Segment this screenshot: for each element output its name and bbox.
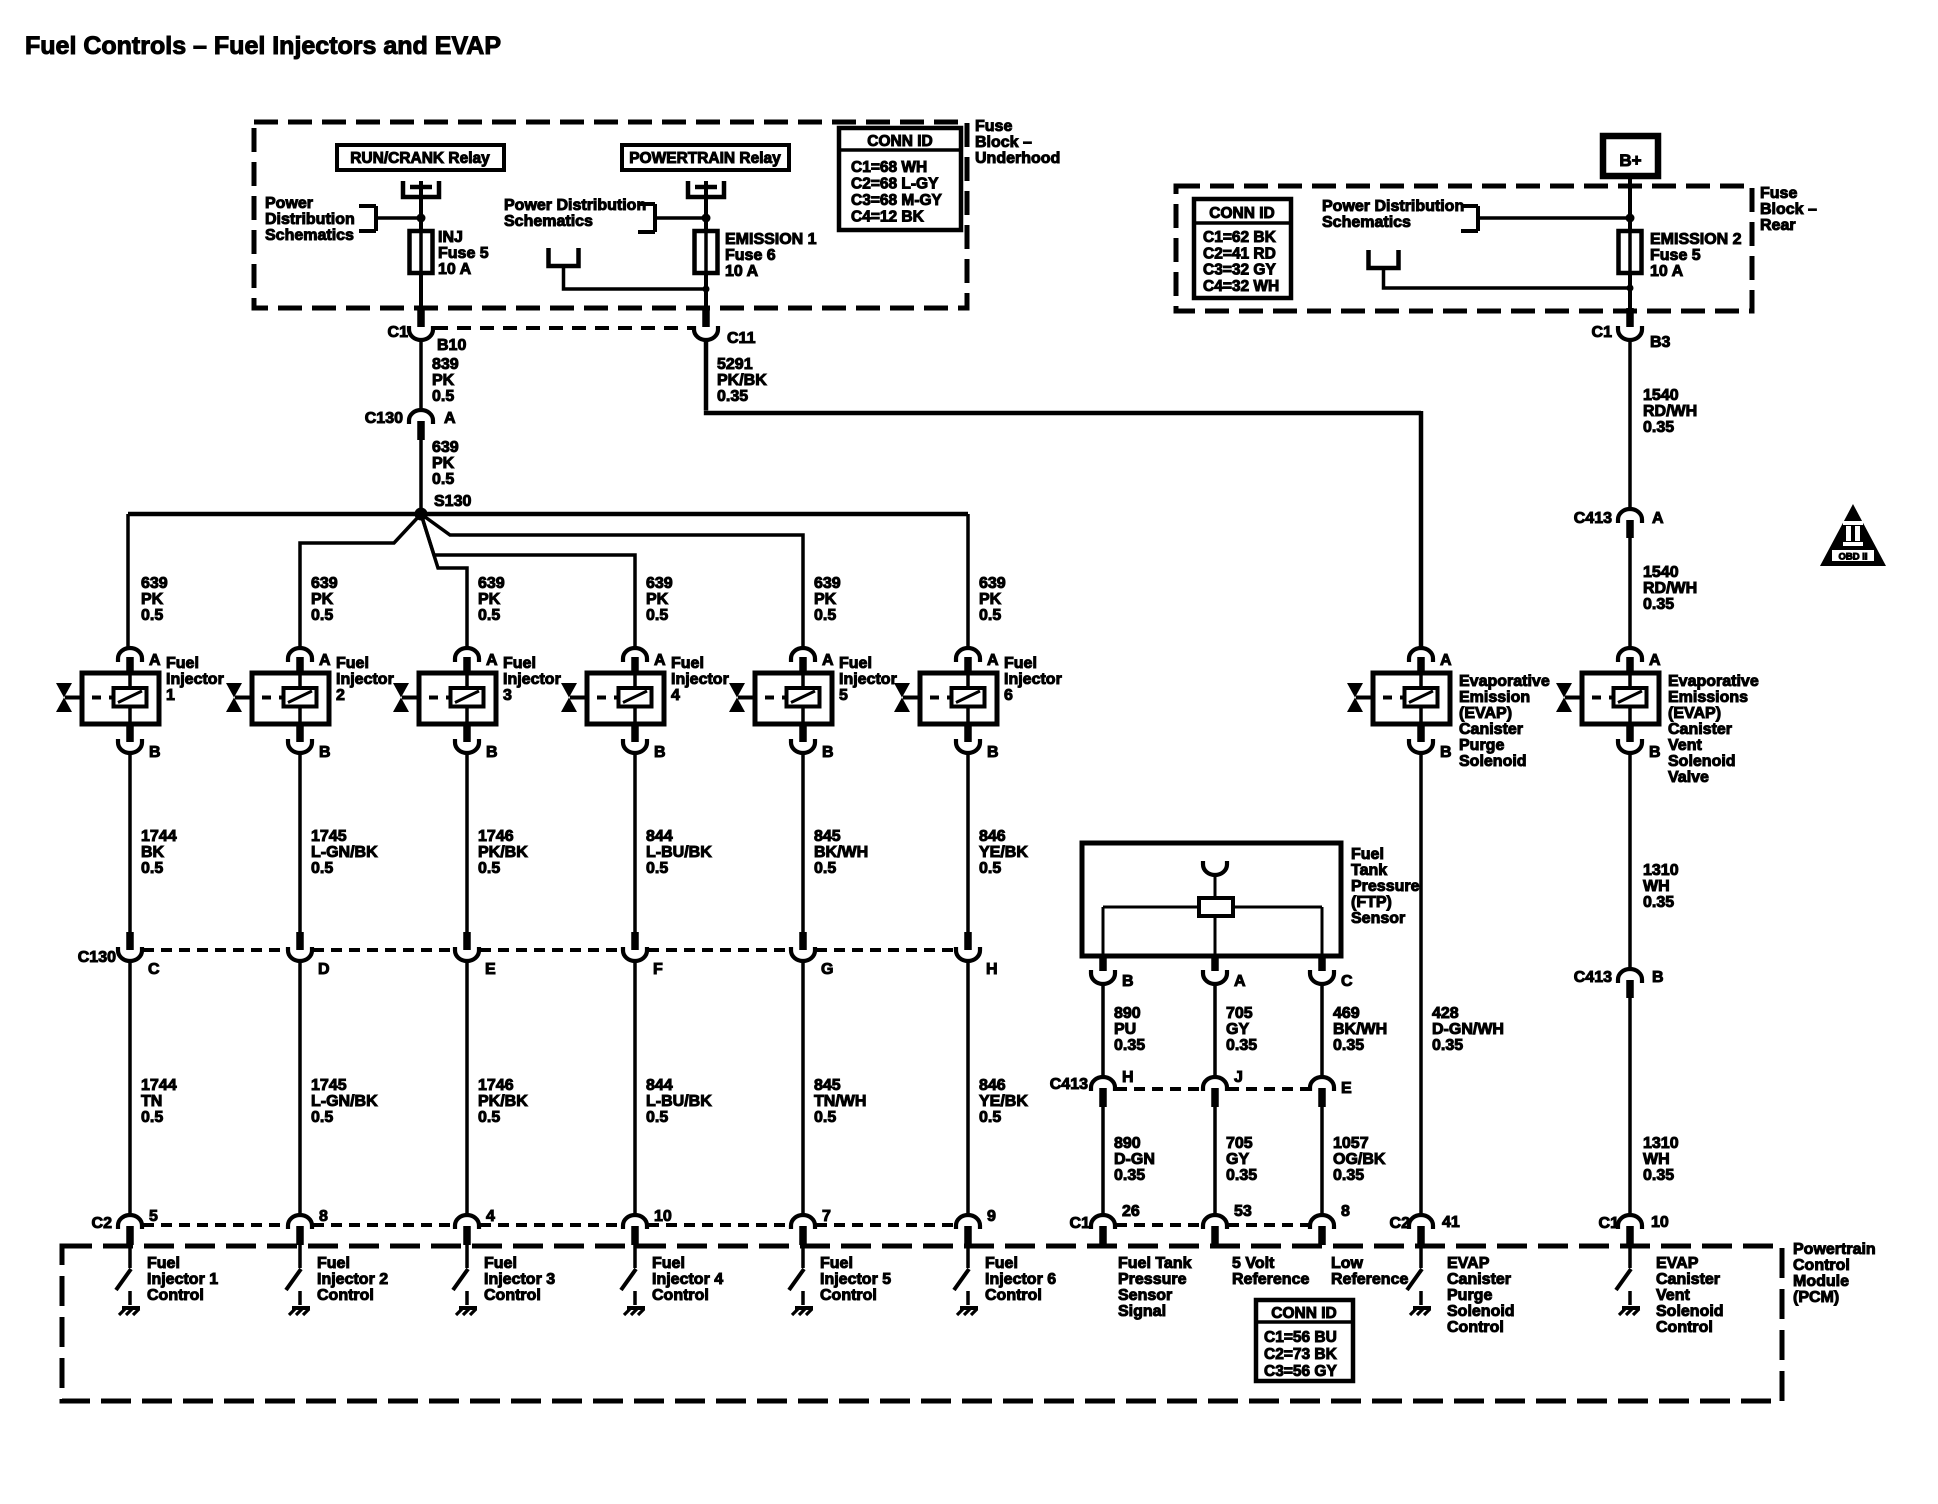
svg-text:0.5: 0.5 — [478, 607, 500, 624]
ground (injector 1 low side) — [119, 1291, 140, 1315]
connector C413 pin H — [1050, 1069, 1134, 1107]
svg-text:C1=56 BU: C1=56 BU — [1264, 1329, 1337, 1346]
svg-text:C1: C1 — [1070, 1215, 1091, 1232]
ground (EVAP purge low side) — [1410, 1291, 1431, 1315]
connector C2 pin 10 (PCM) — [623, 1208, 672, 1245]
svg-text:Fuel: Fuel — [839, 655, 872, 672]
svg-text:41: 41 — [1442, 1214, 1460, 1231]
svg-text:Injector 2: Injector 2 — [317, 1271, 388, 1288]
OBD II symbol — [1820, 504, 1886, 566]
svg-text:EMISSION 1: EMISSION 1 — [725, 231, 817, 248]
svg-text:RD/WH: RD/WH — [1643, 403, 1697, 420]
svg-text:0.5: 0.5 — [311, 1109, 333, 1126]
svg-text:WH: WH — [1643, 878, 1670, 895]
wire: S130 to injector 5 — [421, 514, 803, 648]
svg-text:Injector: Injector — [671, 671, 729, 688]
svg-text:YE/BK: YE/BK — [979, 844, 1028, 861]
wire 639 PK 0.5 label (injector 5) — [814, 575, 841, 624]
svg-text:839: 839 — [432, 356, 459, 373]
wire: INJ fuse to C1 — [419, 273, 423, 310]
fuse block rear dashed box — [1176, 186, 1752, 311]
svg-text:890: 890 — [1114, 1005, 1141, 1022]
svg-text:A: A — [822, 652, 834, 669]
svg-text:B: B — [654, 744, 666, 761]
svg-text:Injector 3: Injector 3 — [484, 1271, 555, 1288]
fuel injector 1 coil box — [75, 673, 159, 724]
fuse EMISSION 1 Fuse 6 10A — [695, 231, 817, 280]
svg-text:E: E — [1341, 1080, 1352, 1097]
svg-text:3: 3 — [503, 687, 512, 704]
wire: trunk to injector 1 — [126, 514, 130, 648]
svg-text:10 A: 10 A — [438, 261, 472, 278]
driver switch Fuel Injector 3 Control — [453, 1245, 468, 1290]
svg-text:0.35: 0.35 — [1643, 419, 1674, 436]
ground (EVAP vent low side) — [1619, 1291, 1640, 1315]
svg-text:0.35: 0.35 — [717, 388, 748, 405]
svg-text:0.5: 0.5 — [979, 860, 1001, 877]
svg-text:C11: C11 — [727, 330, 756, 347]
label Fuse Block - Underhood — [975, 118, 1060, 167]
connector C130 pin E — [455, 932, 496, 978]
svg-text:PK: PK — [646, 591, 669, 608]
svg-text:428: 428 — [1432, 1005, 1459, 1022]
connector C413 pin B — [1574, 969, 1664, 998]
svg-text:Reference: Reference — [1331, 1271, 1408, 1288]
label EVAP Canister Purge Solenoid Control — [1447, 1255, 1515, 1336]
connector C2 pin 7 (PCM) — [791, 1208, 831, 1245]
svg-text:10 A: 10 A — [1650, 263, 1684, 280]
svg-text:705: 705 — [1226, 1005, 1253, 1022]
svg-text:Schematics: Schematics — [504, 213, 593, 230]
wire C130 E to PCM — [467, 961, 528, 1215]
svg-text:0.5: 0.5 — [814, 607, 836, 624]
svg-text:Fuel: Fuel — [1004, 655, 1037, 672]
solenoid valve symbol (EVAP vent) — [1556, 683, 1575, 712]
svg-text:Fuel Controls – Fuel Injectors: Fuel Controls – Fuel Injectors and EVAP — [25, 32, 501, 60]
svg-text:Vent: Vent — [1668, 737, 1702, 754]
svg-text:Control: Control — [652, 1287, 709, 1304]
svg-text:PK: PK — [478, 591, 501, 608]
wire: S130 to injector 3 — [421, 514, 467, 648]
connector C2 pin 5 (PCM) — [118, 1208, 158, 1245]
svg-text:1744: 1744 — [141, 828, 177, 845]
svg-text:G: G — [821, 961, 833, 978]
svg-text:Sensor: Sensor — [1118, 1287, 1172, 1304]
svg-text:B10: B10 — [437, 337, 466, 354]
wire: EMISSION 2 fuse to C1 B3 — [1628, 273, 1632, 311]
connector C130 pin F — [623, 932, 663, 978]
svg-text:BK/WH: BK/WH — [1333, 1021, 1387, 1038]
svg-text:B: B — [149, 744, 161, 761]
FTP sensor pin C — [1310, 954, 1353, 990]
svg-text:Vent: Vent — [1656, 1287, 1690, 1304]
svg-text:Control: Control — [317, 1287, 374, 1304]
svg-text:Fuel: Fuel — [820, 1255, 853, 1272]
EVAP canister vent solenoid coil box — [1575, 673, 1659, 724]
wire C130 D to PCM — [300, 961, 378, 1215]
wire 639 PK 0.5 (C130 A to S130) — [421, 439, 459, 514]
solenoid valve symbol (EVAP purge) — [1347, 683, 1366, 712]
svg-text:B3: B3 — [1650, 334, 1671, 351]
svg-text:0.5: 0.5 — [646, 860, 668, 877]
svg-text:C2=41 RD: C2=41 RD — [1203, 245, 1276, 262]
svg-text:Solenoid: Solenoid — [1668, 753, 1736, 770]
driver switch Fuel Injector 4 Control — [621, 1245, 636, 1290]
svg-text:D: D — [318, 961, 330, 978]
svg-text:639: 639 — [646, 575, 673, 592]
svg-text:846: 846 — [979, 828, 1006, 845]
svg-text:Control: Control — [985, 1287, 1042, 1304]
wire 1057 OG/BK 0.35 — [1322, 1107, 1386, 1215]
svg-text:A: A — [444, 410, 456, 427]
svg-text:Reference: Reference — [1232, 1271, 1309, 1288]
svg-text:Power Distribution: Power Distribution — [1322, 198, 1464, 215]
label Fuel Injector 4 — [671, 655, 729, 704]
svg-text:Pressure: Pressure — [1351, 878, 1420, 895]
svg-text:Fuel: Fuel — [671, 655, 704, 672]
wire: power distribution to EMISSION 2 fuse — [1478, 214, 1635, 223]
svg-text:469: 469 — [1333, 1005, 1360, 1022]
svg-text:Control: Control — [484, 1287, 541, 1304]
wire: cavity to EMISSION 2 fuse output — [1384, 268, 1634, 292]
svg-text:639: 639 — [979, 575, 1006, 592]
label Fuel Injector 6 — [1004, 655, 1062, 704]
label Fuel Tank Pressure (FTP) Sensor — [1351, 846, 1420, 927]
solenoid valve symbol (injector 5) — [729, 683, 748, 712]
svg-text:Rear: Rear — [1760, 217, 1796, 234]
connector C2 pin 8 (PCM) — [288, 1208, 328, 1245]
svg-text:Distribution: Distribution — [265, 211, 355, 228]
svg-text:Control: Control — [820, 1287, 877, 1304]
svg-text:PK: PK — [432, 372, 455, 389]
fuse INJ Fuse 5 10A — [410, 229, 489, 278]
svg-text:C1=62 BK: C1=62 BK — [1203, 229, 1277, 246]
svg-text:C1: C1 — [1592, 324, 1613, 341]
svg-text:L-BU/BK: L-BU/BK — [646, 844, 712, 861]
wire injector 1 to C130 — [130, 753, 177, 934]
connector pin B of fuel injector 2 — [288, 724, 331, 761]
wire 639 PK 0.5 label (injector 3) — [478, 575, 505, 624]
driver switch Fuel Injector 6 Control — [954, 1245, 969, 1290]
svg-text:B: B — [1440, 744, 1452, 761]
svg-text:Canister: Canister — [1447, 1271, 1511, 1288]
svg-text:Module: Module — [1793, 1273, 1849, 1290]
svg-text:845: 845 — [814, 1077, 841, 1094]
svg-text:C2=68 L-GY: C2=68 L-GY — [851, 176, 939, 193]
label Evaporative Emissions (EVAP) Canister Vent Solenoid Valve — [1668, 673, 1759, 786]
svg-text:B: B — [1122, 973, 1134, 990]
svg-text:F: F — [653, 961, 663, 978]
svg-text:Control: Control — [1656, 1319, 1713, 1336]
svg-text:BK/WH: BK/WH — [814, 844, 868, 861]
svg-text:Schematics: Schematics — [265, 227, 354, 244]
EVAP canister purge solenoid coil box — [1366, 673, 1450, 724]
fuel injector 3 coil box — [412, 673, 496, 724]
wire C130 C to PCM — [130, 961, 177, 1215]
svg-text:1057: 1057 — [1333, 1135, 1369, 1152]
svg-text:C4=32 WH: C4=32 WH — [1203, 278, 1279, 295]
svg-text:C130: C130 — [365, 410, 403, 427]
svg-text:0.35: 0.35 — [1432, 1037, 1463, 1054]
svg-text:Emissions: Emissions — [1668, 689, 1748, 706]
svg-text:C1: C1 — [388, 324, 409, 341]
connector pin A of EVAP vent solenoid — [1618, 648, 1661, 674]
svg-text:5 Volt: 5 Volt — [1232, 1255, 1275, 1272]
connector C1 pin 10 (PCM) — [1599, 1214, 1669, 1245]
svg-text:Injector 1: Injector 1 — [147, 1271, 218, 1288]
wire 639 PK 0.5 label (injector 1) — [141, 575, 168, 624]
svg-text:S130: S130 — [434, 493, 471, 510]
svg-text:C: C — [1341, 973, 1353, 990]
connector pin A of fuel injector 3 — [455, 648, 498, 674]
ground (injector 3 low side) — [456, 1291, 477, 1315]
connector cavity stub (rear) — [1369, 250, 1399, 268]
label Fuel Injector 6 Control — [985, 1255, 1056, 1304]
svg-text:E: E — [485, 961, 496, 978]
connector pin A of fuel injector 4 — [623, 648, 666, 674]
svg-text:PK/BK: PK/BK — [717, 372, 767, 389]
wire C130 G to PCM — [803, 961, 866, 1215]
connector cavity stub (underhood) — [549, 248, 579, 266]
svg-text:Underhood: Underhood — [975, 150, 1060, 167]
label Fuel Injector 2 — [336, 655, 394, 704]
svg-text:Fuse: Fuse — [1760, 185, 1797, 202]
svg-text:8: 8 — [1341, 1203, 1350, 1220]
ground (injector 5 low side) — [792, 1291, 813, 1315]
svg-text:EMISSION 2: EMISSION 2 — [1650, 231, 1742, 248]
title: Fuel Controls - Fuel Injectors and EVAP — [25, 32, 501, 60]
label Powertrain Control Module (PCM) — [1793, 1241, 1876, 1306]
svg-text:1540: 1540 — [1643, 387, 1679, 404]
svg-text:OG/BK: OG/BK — [1333, 1151, 1386, 1168]
svg-text:0.5: 0.5 — [646, 607, 668, 624]
wire 639 PK 0.5 label (injector 2) — [311, 575, 338, 624]
node: junction dot at EMISSION 1 fuse feed — [702, 214, 711, 223]
label EVAP Canister Vent Solenoid Control — [1656, 1255, 1724, 1336]
svg-text:Low: Low — [1331, 1255, 1364, 1272]
svg-text:OBD II: OBD II — [1838, 552, 1867, 563]
label Fuel Injector 1 — [166, 655, 224, 704]
fuel injector 4 coil box — [580, 673, 664, 724]
svg-text:Emission: Emission — [1459, 689, 1530, 706]
svg-text:Valve: Valve — [1668, 769, 1709, 786]
wire: EMISSION 1 fuse to C11 — [704, 273, 708, 310]
connector C1 pin B3 (fuse block rear) — [1592, 308, 1671, 351]
wire interface dashed line C1-C11 — [434, 326, 692, 330]
connector C130 pin C — [118, 932, 160, 978]
svg-text:890: 890 — [1114, 1135, 1141, 1152]
svg-text:Injector: Injector — [166, 671, 224, 688]
CONN ID table underhood — [839, 128, 961, 230]
label Fuel Tank Pressure Sensor Signal — [1118, 1255, 1192, 1320]
wire 705 GY 0.35 (upper) — [1215, 984, 1257, 1077]
svg-text:5: 5 — [839, 687, 848, 704]
svg-text:Fuel Tank: Fuel Tank — [1118, 1255, 1192, 1272]
svg-text:EVAP: EVAP — [1447, 1255, 1490, 1272]
svg-text:Fuel: Fuel — [1351, 846, 1384, 863]
svg-text:CONN ID: CONN ID — [1271, 1305, 1336, 1322]
power distribution schematics reference (rear) — [1322, 198, 1478, 231]
svg-text:Evaporative: Evaporative — [1668, 673, 1759, 690]
svg-text:5291: 5291 — [717, 356, 753, 373]
svg-text:A: A — [1440, 652, 1452, 669]
svg-text:RD/WH: RD/WH — [1643, 580, 1697, 597]
label Low Reference — [1331, 1255, 1408, 1288]
label Fuel Injector 4 Control — [652, 1255, 723, 1304]
wire 1310 WH 0.35 (lower) — [1630, 998, 1679, 1215]
FTP sensor pin B — [1091, 954, 1134, 990]
ground (injector 2 low side) — [289, 1291, 310, 1315]
ground (injector 6 low side) — [957, 1291, 978, 1315]
svg-text:B+: B+ — [1619, 151, 1641, 170]
ground (injector 4 low side) — [624, 1291, 645, 1315]
svg-text:Control: Control — [1793, 1257, 1850, 1274]
svg-text:0.5: 0.5 — [814, 860, 836, 877]
svg-text:Canister: Canister — [1656, 1271, 1720, 1288]
connector C1 pin 8 (PCM) — [1310, 1203, 1350, 1245]
svg-text:0.5: 0.5 — [311, 860, 333, 877]
svg-text:BK: BK — [141, 844, 165, 861]
connector C11 (fuse block underhood) — [694, 306, 756, 347]
svg-text:(EVAP): (EVAP) — [1459, 705, 1512, 722]
svg-text:1: 1 — [166, 687, 175, 704]
connector pin B of fuel injector 4 — [623, 724, 666, 761]
svg-text:Block –: Block – — [1760, 201, 1817, 218]
svg-text:Fuel: Fuel — [985, 1255, 1018, 1272]
svg-text:1310: 1310 — [1643, 1135, 1679, 1152]
svg-text:844: 844 — [646, 828, 673, 845]
wire 469 BK/WH 0.35 — [1322, 984, 1387, 1077]
connector C2 pin 4 (PCM) — [455, 1208, 495, 1245]
svg-text:YE/BK: YE/BK — [979, 1093, 1028, 1110]
label Fuel Injector 1 Control — [147, 1255, 218, 1304]
connector C2 pin 41 (PCM) — [1390, 1214, 1460, 1245]
svg-text:C413: C413 — [1574, 510, 1612, 527]
wire: cavity to EMISSION 1 fuse output — [564, 266, 710, 293]
driver switch EVAP vent control — [1616, 1245, 1631, 1290]
wire 890 D-GN 0.35 — [1103, 1107, 1155, 1215]
wire injector 2 to C130 — [300, 753, 378, 934]
label Fuel Injector 5 — [839, 655, 897, 704]
wire 428 D-GN/WH 0.35 — [1421, 753, 1504, 1215]
svg-text:C2: C2 — [92, 1215, 113, 1232]
driver switch EVAP purge control — [1407, 1245, 1422, 1290]
svg-text:844: 844 — [646, 1077, 673, 1094]
wire 705 GY 0.35 (lower) — [1215, 1107, 1257, 1215]
connector pin A of EVAP purge solenoid — [1409, 648, 1452, 674]
battery feed B+ box — [1603, 136, 1658, 176]
svg-text:C413: C413 — [1574, 969, 1612, 986]
svg-text:639: 639 — [814, 575, 841, 592]
svg-text:0.35: 0.35 — [1333, 1037, 1364, 1054]
svg-text:639: 639 — [432, 439, 459, 456]
svg-text:GY: GY — [1226, 1151, 1249, 1168]
svg-text:2: 2 — [336, 687, 345, 704]
connector C130 pin A — [365, 410, 456, 440]
svg-text:TN: TN — [141, 1093, 162, 1110]
svg-text:10: 10 — [1651, 1214, 1669, 1231]
svg-text:8: 8 — [319, 1208, 328, 1225]
svg-text:C2: C2 — [1390, 1215, 1411, 1232]
svg-text:PK/BK: PK/BK — [478, 844, 528, 861]
wire C130 H to PCM — [968, 961, 1028, 1215]
svg-text:Block –: Block – — [975, 134, 1032, 151]
svg-text:(FTP): (FTP) — [1351, 894, 1392, 911]
svg-text:Control: Control — [1447, 1319, 1504, 1336]
connector pin B of fuel injector 1 — [118, 724, 161, 761]
wire: power distribution to EMISSION 1 fuse — [655, 216, 706, 220]
splice S130 — [415, 493, 472, 521]
svg-text:Fuse 6: Fuse 6 — [725, 247, 776, 264]
svg-text:TN/WH: TN/WH — [814, 1093, 866, 1110]
svg-text:B: B — [486, 744, 498, 761]
driver switch Fuel Injector 5 Control — [789, 1245, 804, 1290]
svg-text:7: 7 — [822, 1208, 831, 1225]
svg-text:Injector 4: Injector 4 — [652, 1271, 723, 1288]
svg-text:A: A — [319, 652, 331, 669]
svg-text:RUN/CRANK Relay: RUN/CRANK Relay — [350, 150, 490, 167]
relay RUN/CRANK pin terminal — [403, 181, 439, 231]
svg-text:H: H — [1122, 1069, 1134, 1086]
svg-text:Tank: Tank — [1351, 862, 1387, 879]
solenoid valve symbol (injector 3) — [393, 683, 412, 712]
svg-text:C2=73 BK: C2=73 BK — [1264, 1346, 1338, 1363]
svg-text:Sensor: Sensor — [1351, 910, 1405, 927]
svg-text:C1=68 WH: C1=68 WH — [851, 159, 927, 176]
fuel tank pressure sensor box — [1082, 843, 1341, 956]
svg-text:A: A — [486, 652, 498, 669]
wire 639 PK 0.5 label (injector 4) — [646, 575, 673, 624]
CONN ID table PCM — [1256, 1300, 1353, 1381]
svg-text:0.35: 0.35 — [1643, 894, 1674, 911]
svg-text:POWERTRAIN Relay: POWERTRAIN Relay — [629, 150, 781, 167]
svg-text:0.5: 0.5 — [979, 1109, 1001, 1126]
svg-text:639: 639 — [141, 575, 168, 592]
svg-text:Power: Power — [265, 195, 313, 212]
wire injector 5 to C130 — [803, 753, 868, 934]
connector C1 interface dashed line (PCM) — [1116, 1223, 1309, 1227]
svg-text:A: A — [1234, 973, 1246, 990]
svg-text:B: B — [822, 744, 834, 761]
svg-text:Signal: Signal — [1118, 1303, 1166, 1320]
connector pin B of fuel injector 6 — [956, 724, 999, 761]
svg-text:Injector: Injector — [503, 671, 561, 688]
svg-text:0.5: 0.5 — [979, 607, 1001, 624]
svg-text:L-BU/BK: L-BU/BK — [646, 1093, 712, 1110]
svg-text:Injector 5: Injector 5 — [820, 1271, 891, 1288]
connector C130 pin G — [791, 932, 833, 978]
connector pin A of fuel injector 1 — [118, 648, 161, 674]
FTP internal wiring — [1103, 907, 1322, 954]
svg-text:Solenoid: Solenoid — [1656, 1303, 1724, 1320]
svg-text:705: 705 — [1226, 1135, 1253, 1152]
svg-text:0.35: 0.35 — [1114, 1037, 1145, 1054]
driver switch Fuel Injector 2 Control — [286, 1245, 301, 1290]
svg-text:B: B — [1649, 744, 1661, 761]
connector C2 pin 9 (PCM) — [956, 1208, 996, 1245]
svg-text:Purge: Purge — [1447, 1287, 1492, 1304]
svg-text:1744: 1744 — [141, 1077, 177, 1094]
svg-text:Canister: Canister — [1459, 721, 1523, 738]
svg-text:0.5: 0.5 — [432, 471, 454, 488]
svg-text:C413: C413 — [1050, 1076, 1088, 1093]
svg-text:Power Distribution: Power Distribution — [504, 197, 646, 214]
wire 890 PU 0.35 — [1103, 984, 1145, 1077]
svg-text:10: 10 — [654, 1208, 672, 1225]
fuel injector 6 coil box — [913, 673, 997, 724]
svg-text:Fuel: Fuel — [336, 655, 369, 672]
svg-text:C3=68 M-GY: C3=68 M-GY — [851, 192, 943, 209]
